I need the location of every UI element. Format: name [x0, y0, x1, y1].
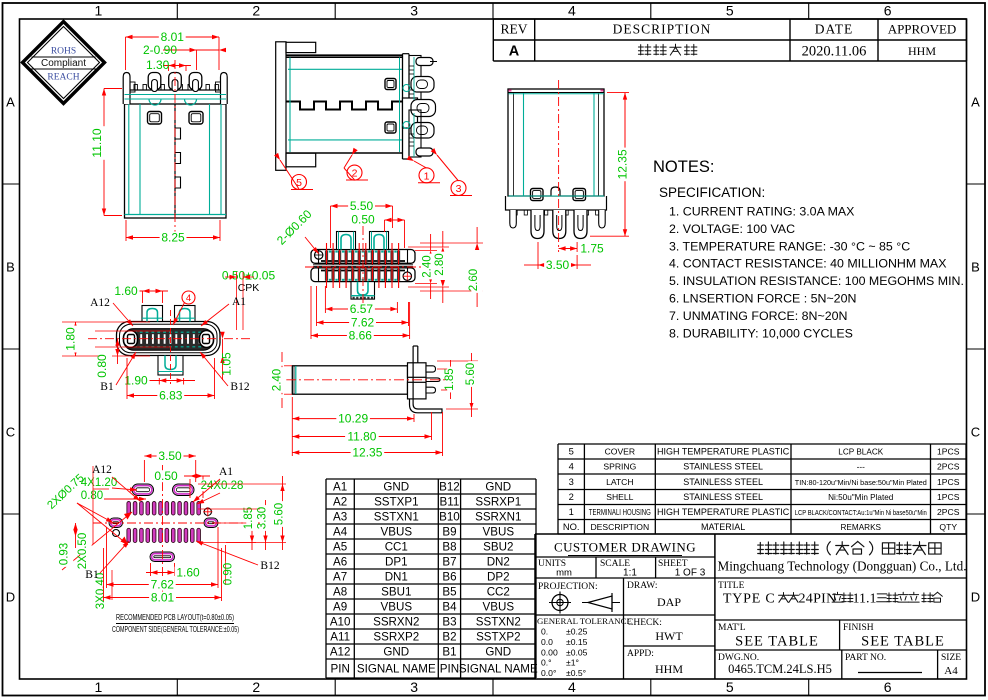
dimension 2-0.90	[196, 50, 198, 70]
svg-text:3: 3	[569, 476, 574, 487]
dimension 8.01 pcb	[103, 548, 105, 601]
svg-text:DAP: DAP	[657, 595, 681, 609]
svg-text:4X1.20: 4X1.20	[81, 477, 117, 489]
svg-text:B12: B12	[260, 560, 279, 572]
description text xin ban fa xing	[638, 44, 650, 55]
svg-text:---: ---	[857, 463, 865, 472]
svg-text:±0.15: ±0.15	[566, 637, 588, 647]
svg-text:7.62: 7.62	[351, 315, 375, 329]
svg-text:CC2: CC2	[487, 586, 510, 599]
svg-text:Ni:50u"Min Plated: Ni:50u"Min Plated	[828, 493, 894, 502]
svg-text:A8: A8	[333, 586, 347, 599]
svg-text:11.10: 11.10	[90, 128, 104, 157]
svg-text:SEE TABLE: SEE TABLE	[861, 634, 945, 650]
svg-text:1: 1	[95, 3, 103, 19]
svg-text:D: D	[6, 590, 15, 605]
dimension 2X0.50	[80, 532, 92, 571]
view front elevation	[123, 73, 227, 219]
svg-text:B9: B9	[442, 526, 456, 539]
svg-text:8.01: 8.01	[151, 590, 175, 604]
svg-text:0.80: 0.80	[95, 354, 109, 378]
svg-text:SIGNAL NAME: SIGNAL NAME	[357, 663, 436, 676]
svg-text:11.1: 11.1	[853, 592, 877, 607]
svg-text:SSRXP1: SSRXP1	[475, 496, 521, 509]
dimension 5.60 view6	[437, 360, 478, 362]
svg-text:DN1: DN1	[385, 571, 408, 584]
dimension 0.93	[75, 523, 77, 548]
svg-text:5: 5	[726, 3, 734, 19]
svg-text:SBU2: SBU2	[483, 541, 513, 554]
svg-text:DRAW:: DRAW:	[627, 581, 658, 591]
dimension 7.62	[316, 286, 318, 326]
svg-text:2.60: 2.60	[468, 269, 480, 291]
svg-text:1: 1	[95, 679, 103, 695]
svg-text:6. LNSERTION FORCE : 5N~20N: 6. LNSERTION FORCE : 5N~20N	[669, 292, 856, 306]
svg-text:SIGNAL NAME: SIGNAL NAME	[459, 663, 538, 676]
dimension 0.50 pcb	[189, 479, 191, 498]
svg-text:1.60: 1.60	[176, 566, 200, 580]
callout 4	[182, 291, 195, 304]
svg-text:Compliant: Compliant	[41, 58, 86, 69]
callout 2	[344, 155, 352, 168]
svg-text:A3: A3	[333, 511, 347, 524]
dimension 6.57	[324, 286, 326, 313]
svg-text:ROHS: ROHS	[51, 47, 76, 57]
dimension 8.25	[125, 220, 127, 241]
svg-text:B7: B7	[442, 556, 456, 569]
dimension 1.80	[75, 322, 77, 356]
svg-text:CHECK:: CHECK:	[627, 618, 662, 628]
svg-text:0.00: 0.00	[541, 647, 558, 657]
svg-text:4: 4	[568, 3, 576, 19]
svg-text:2: 2	[569, 491, 574, 502]
svg-text:5: 5	[569, 446, 574, 457]
svg-text:HHM: HHM	[655, 662, 683, 676]
label 2X dia0.75	[45, 472, 86, 512]
svg-text:STAINLESS STEEL: STAINLESS STEEL	[683, 477, 763, 487]
svg-text:A4: A4	[333, 526, 348, 539]
svg-text:3.50: 3.50	[158, 449, 182, 463]
svg-text:1PCS: 1PCS	[937, 492, 960, 502]
svg-text:1.30: 1.30	[146, 58, 170, 72]
svg-text:A6: A6	[333, 556, 347, 569]
svg-text:GND: GND	[383, 646, 409, 659]
projection cone symbol	[588, 596, 612, 609]
svg-text:QTY: QTY	[939, 522, 957, 532]
dimension 8.66	[310, 286, 312, 339]
callout 1	[414, 161, 427, 168]
company name chinese	[758, 542, 772, 555]
dimension 2.40 view6	[281, 352, 283, 362]
svg-text:2. VOLTAGE: 100 VAC: 2. VOLTAGE: 100 VAC	[669, 222, 795, 236]
svg-text:2.80: 2.80	[434, 253, 446, 275]
svg-text:mm: mm	[556, 568, 572, 579]
centerline view4	[305, 266, 421, 268]
svg-text:CC1: CC1	[385, 541, 408, 554]
svg-text:4: 4	[186, 293, 191, 304]
svg-text:APPROVED: APPROVED	[888, 22, 957, 37]
dimension 3.50 pcb	[143, 460, 145, 482]
svg-text:A12: A12	[92, 464, 112, 476]
svg-text:C: C	[971, 425, 980, 440]
dimension 3.50	[537, 242, 539, 269]
dimension 3X0.40	[98, 572, 110, 611]
svg-text:HHM: HHM	[908, 44, 936, 58]
svg-text:6: 6	[884, 679, 892, 695]
svg-text:TYPE C: TYPE C	[723, 592, 776, 607]
svg-text:A2: A2	[333, 496, 347, 509]
svg-text:STAINLESS STEEL: STAINLESS STEEL	[683, 492, 763, 502]
svg-text:1: 1	[569, 506, 574, 517]
svg-text:A7: A7	[333, 571, 347, 584]
centerlines view5	[88, 338, 252, 340]
svg-text:STAINLESS STEEL: STAINLESS STEEL	[683, 462, 763, 472]
svg-text:SBU1: SBU1	[381, 586, 411, 599]
svg-text:5.50: 5.50	[350, 199, 374, 213]
dimension 0.50 +-0.05 cpk	[218, 270, 278, 282]
dimension 8.01	[125, 37, 127, 70]
svg-text:7. UNMATING FORCE: 8N~20N: 7. UNMATING FORCE: 8N~20N	[669, 309, 847, 323]
svg-text:0465.TCM.24LS.H5: 0465.TCM.24LS.H5	[728, 662, 832, 676]
svg-text:0.90: 0.90	[223, 563, 235, 585]
svg-text:FINISH: FINISH	[843, 623, 874, 633]
rohs compliant reach logo diamond	[23, 22, 105, 104]
svg-text:SSRXP2: SSRXP2	[373, 631, 419, 644]
svg-text:SSRXN1: SSRXN1	[475, 511, 521, 524]
dimension 11.10	[103, 89, 105, 216]
svg-text:REV: REV	[501, 22, 528, 37]
svg-text:A1: A1	[219, 466, 233, 478]
svg-text:0.0°: 0.0°	[541, 668, 556, 678]
svg-text:DESCRIPTION: DESCRIPTION	[590, 522, 649, 532]
svg-text:VBUS: VBUS	[483, 526, 515, 539]
svg-text:1.60: 1.60	[114, 284, 138, 298]
dimension 0.90	[225, 545, 227, 585]
view plan with contacts	[311, 232, 415, 300]
svg-text:1.80: 1.80	[64, 327, 78, 351]
zone column ticks	[176, 3, 178, 19]
svg-text:±1°: ±1°	[566, 658, 579, 668]
svg-text:2X0.50: 2X0.50	[77, 533, 89, 569]
svg-text:0.50: 0.50	[351, 213, 375, 227]
svg-text:3: 3	[456, 183, 462, 195]
view rear elevation	[506, 89, 607, 239]
svg-text:SEE TABLE: SEE TABLE	[735, 634, 819, 650]
svg-text:24PIN: 24PIN	[799, 592, 837, 607]
svg-text:6.83: 6.83	[159, 388, 183, 402]
dimension 1.60 pcb	[150, 563, 152, 576]
svg-text:4: 4	[568, 679, 576, 695]
svg-text:SPECIFICATION:: SPECIFICATION:	[659, 185, 765, 200]
svg-text:A1: A1	[232, 296, 246, 308]
svg-text:12.35: 12.35	[352, 445, 382, 459]
dimension 6.83	[126, 358, 128, 399]
svg-text:2.40: 2.40	[272, 369, 284, 391]
svg-text:A10: A10	[330, 616, 351, 629]
svg-text:1.85: 1.85	[243, 507, 255, 529]
svg-text:GND: GND	[485, 646, 511, 659]
svg-text:1PCS: 1PCS	[937, 477, 960, 487]
zone row ticks	[3, 183, 20, 185]
dimension 1.90	[158, 378, 160, 385]
svg-text:SSTXP2: SSTXP2	[476, 631, 520, 644]
dimension 5.60 pcb	[198, 483, 286, 485]
svg-text:1 OF 3: 1 OF 3	[675, 568, 706, 579]
title block frame	[535, 533, 967, 535]
svg-text:±0.25: ±0.25	[566, 627, 588, 637]
svg-text:2-0.90: 2-0.90	[143, 43, 177, 57]
svg-text:B4: B4	[442, 601, 457, 614]
dimension 0.80	[117, 339, 119, 364]
view mating face	[117, 306, 221, 376]
svg-text:2: 2	[352, 168, 358, 180]
svg-text:3.30: 3.30	[257, 507, 269, 529]
svg-text:PROJECTION:: PROJECTION:	[538, 582, 598, 592]
svg-text:GENERAL TOLERANCE: GENERAL TOLERANCE	[537, 616, 632, 626]
svg-text:PIN: PIN	[330, 663, 349, 676]
svg-text:10.29: 10.29	[338, 412, 368, 426]
svg-text:A12: A12	[90, 297, 110, 309]
dimension 10.29	[291, 397, 293, 456]
dimension 1.30	[168, 66, 170, 72]
svg-text:5. INSULATION RESISTANCE: 100: 5. INSULATION RESISTANCE: 100 MEGOHMS MI…	[669, 274, 964, 288]
svg-text:A1: A1	[333, 481, 347, 494]
svg-text:NO.: NO.	[563, 521, 580, 532]
svg-text:A5: A5	[333, 541, 347, 554]
svg-text:COMPONENT SIDE(GENERAL TOLERAN: COMPONENT SIDE(GENERAL TOLERANCE:±0.05)	[112, 624, 239, 634]
svg-text:SIZE: SIZE	[941, 653, 961, 663]
svg-text:SHELL: SHELL	[606, 492, 633, 502]
svg-text:5: 5	[296, 177, 302, 189]
svg-text:5: 5	[726, 679, 734, 695]
svg-text:A12: A12	[330, 646, 351, 659]
svg-text:8. DURABILITY: 10,000 CYCLES: 8. DURABILITY: 10,000 CYCLES	[669, 326, 853, 340]
dimension 5.50	[330, 206, 332, 248]
svg-text:0.93: 0.93	[59, 543, 71, 565]
dimension 1.85 pcb	[212, 522, 256, 524]
svg-text:SSTXP1: SSTXP1	[374, 496, 418, 509]
svg-text:B1: B1	[442, 646, 456, 659]
svg-text:B5: B5	[442, 586, 456, 599]
label 24X0.28	[200, 480, 245, 492]
svg-text:2020.11.06: 2020.11.06	[802, 44, 867, 60]
svg-text:1: 1	[424, 170, 430, 182]
dimension 12.35 view6	[442, 412, 444, 456]
svg-text:B12: B12	[230, 381, 249, 393]
svg-text:5.60: 5.60	[274, 503, 286, 525]
svg-text:A: A	[6, 95, 15, 110]
svg-text:6.57: 6.57	[350, 302, 374, 316]
callout 3	[437, 155, 459, 181]
svg-text:B3: B3	[442, 616, 456, 629]
svg-text:4. CONTACT RESISTANCE: 40 MILL: 4. CONTACT RESISTANCE: 40 MILLIONHM MAX	[669, 257, 946, 271]
svg-text:D: D	[971, 590, 980, 605]
svg-text:MATERIAL: MATERIAL	[701, 522, 745, 532]
svg-text:C: C	[6, 425, 15, 440]
dimension 11.80	[431, 412, 433, 440]
svg-text:B2: B2	[442, 631, 456, 644]
svg-text:APPD:: APPD:	[627, 649, 654, 659]
svg-text:5.60: 5.60	[465, 363, 477, 385]
svg-text:2: 2	[252, 679, 260, 695]
svg-text:DP2: DP2	[487, 571, 510, 584]
label 0.80 pcb	[79, 490, 105, 502]
leader cross lines pcb	[62, 512, 132, 570]
svg-text:0.: 0.	[541, 627, 548, 637]
svg-text:1.05: 1.05	[220, 352, 234, 376]
svg-text:DP1: DP1	[385, 556, 408, 569]
dimension 3.30 pcb	[198, 508, 269, 510]
svg-text:7.62: 7.62	[151, 577, 175, 591]
svg-text:2.40: 2.40	[422, 255, 434, 277]
svg-text:TERMINALI HOUSING: TERMINALI HOUSING	[589, 507, 651, 517]
view recommended pcb layout	[109, 484, 218, 562]
dimension 1.60	[142, 291, 144, 303]
svg-text:12.35: 12.35	[616, 149, 630, 179]
svg-text:CUSTOMER DRAWING: CUSTOMER DRAWING	[554, 540, 696, 555]
svg-text:A: A	[509, 44, 520, 60]
svg-text:HIGH TEMPERATURE PLASTIC: HIGH TEMPERATURE PLASTIC	[657, 447, 790, 457]
svg-text:GND: GND	[383, 481, 409, 494]
svg-text:B1: B1	[100, 381, 114, 393]
svg-text:1.85: 1.85	[444, 368, 456, 390]
svg-text:PART NO.: PART NO.	[845, 653, 886, 663]
svg-text:SSRXN2: SSRXN2	[373, 616, 419, 629]
svg-text:COVER: COVER	[605, 447, 636, 457]
svg-text:LCP BLACK/CONTACT:Au:1u"Min Ni: LCP BLACK/CONTACT:Au:1u"Min Ni base50u"M…	[795, 510, 927, 517]
svg-text:1PCS: 1PCS	[937, 447, 960, 457]
svg-text:HWT: HWT	[655, 629, 683, 643]
svg-text:GND: GND	[485, 481, 511, 494]
svg-text:11.80: 11.80	[347, 429, 376, 443]
svg-text:3.50: 3.50	[546, 258, 570, 272]
svg-text:3: 3	[410, 3, 418, 19]
svg-text:A: A	[971, 95, 980, 110]
svg-text:8.66: 8.66	[349, 328, 373, 342]
svg-text:B1: B1	[85, 569, 99, 581]
svg-text:±0.5°: ±0.5°	[566, 668, 586, 678]
svg-text:NOTES:: NOTES:	[653, 158, 714, 176]
svg-text:SSTXN1: SSTXN1	[374, 511, 419, 524]
svg-text:Mingchuang Technology (Donggua: Mingchuang Technology (Dongguan) Co., Lt…	[718, 559, 967, 574]
dimension 7.62 pcb	[106, 527, 108, 588]
svg-text:1:1: 1:1	[623, 568, 637, 579]
dimension 1.85 view6	[437, 368, 455, 370]
svg-text:1. CURRENT RATING: 3.0A MAX: 1. CURRENT RATING: 3.0A MAX	[669, 205, 854, 219]
svg-text:A11: A11	[330, 631, 350, 644]
svg-text:VBUS: VBUS	[381, 601, 413, 614]
svg-text:8.01: 8.01	[161, 30, 185, 44]
svg-text:2: 2	[252, 3, 260, 19]
svg-text:LCP BLACK: LCP BLACK	[838, 448, 883, 457]
svg-text:HIGH TEMPERATURE PLASTIC: HIGH TEMPERATURE PLASTIC	[657, 507, 790, 517]
view side elevation	[276, 42, 437, 171]
pin assignment table	[326, 478, 536, 480]
svg-text:CPK: CPK	[238, 282, 260, 294]
svg-text:8.25: 8.25	[161, 230, 185, 244]
parts list table	[558, 443, 966, 445]
revision table	[493, 18, 966, 20]
svg-text:SSTXN2: SSTXN2	[476, 616, 521, 629]
svg-text:VBUS: VBUS	[483, 601, 515, 614]
svg-text:A4: A4	[944, 665, 958, 677]
svg-text:REACH: REACH	[47, 73, 79, 83]
svg-text:3: 3	[410, 679, 418, 695]
svg-text:RECOMMENDED PCB LAYOUT(t=0.80±: RECOMMENDED PCB LAYOUT(t=0.80±0.05)	[116, 612, 234, 622]
svg-text:6: 6	[884, 3, 892, 19]
svg-text:SPRING: SPRING	[603, 462, 636, 472]
svg-text:0.0: 0.0	[541, 637, 553, 647]
svg-text:REMARKS: REMARKS	[841, 523, 882, 532]
svg-text:4: 4	[569, 461, 574, 472]
svg-text:B6: B6	[442, 571, 456, 584]
svg-text:DN2: DN2	[487, 556, 510, 569]
svg-text:±0.05: ±0.05	[566, 647, 588, 657]
dimension 2.40 2.80 2.60	[415, 249, 437, 251]
svg-text:B10: B10	[439, 511, 460, 524]
svg-text:B: B	[971, 260, 980, 275]
svg-text:MAT'L: MAT'L	[718, 623, 746, 633]
svg-text:1.75: 1.75	[580, 242, 604, 256]
dimension 1.05	[222, 339, 224, 380]
centerlines view7	[93, 522, 262, 524]
svg-text:DATE: DATE	[815, 22, 854, 37]
dimension 0.50	[385, 219, 405, 221]
svg-text:A9: A9	[333, 601, 347, 614]
svg-text:2PCS: 2PCS	[937, 507, 960, 517]
svg-text:TIN:80-120u"Min/Ni base:50u"Mi: TIN:80-120u"Min/Ni base:50u"Min Plated	[795, 480, 927, 487]
svg-text:PIN: PIN	[440, 663, 459, 676]
svg-text:DESCRIPTION: DESCRIPTION	[613, 22, 712, 37]
svg-text:2PCS: 2PCS	[937, 462, 960, 472]
dimension 1.75	[576, 242, 578, 252]
svg-text:B: B	[6, 260, 15, 275]
svg-text:0.50: 0.50	[154, 469, 178, 483]
svg-text:VBUS: VBUS	[381, 526, 413, 539]
label 4X1.20	[80, 477, 119, 489]
svg-text:B12: B12	[439, 481, 460, 494]
svg-text:B11: B11	[440, 496, 460, 509]
centerline view6	[286, 379, 448, 381]
svg-text:B8: B8	[442, 541, 456, 554]
label 2-dia-0.60	[274, 207, 315, 248]
centerline view3	[558, 80, 560, 252]
svg-text:TITLE: TITLE	[718, 581, 745, 591]
svg-text:1.90: 1.90	[124, 374, 148, 388]
svg-text:0.°: 0.°	[541, 658, 552, 668]
dimension 12.35 vertical	[607, 92, 629, 94]
svg-text:0.80: 0.80	[81, 490, 103, 502]
callout 5	[280, 160, 299, 189]
view side profile	[292, 346, 442, 413]
centerline view1	[174, 60, 176, 235]
svg-text:3. TEMPERATURE RANGE: -30 °C ~: 3. TEMPERATURE RANGE: -30 °C ~ 85 °C	[669, 239, 910, 253]
svg-text:LATCH: LATCH	[606, 477, 634, 487]
